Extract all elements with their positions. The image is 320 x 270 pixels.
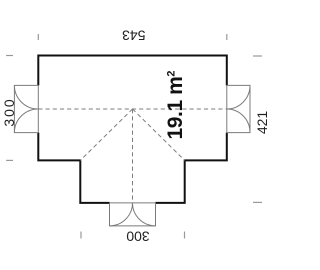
- svg-text:300: 300: [1, 97, 17, 126]
- roof ridge dashed horizontal: [38, 108, 227, 110]
- roof hip dashed diagonal right: [133, 109, 185, 160]
- door D3 bottom: swing arc right leaf: [133, 203, 156, 226]
- door D2 right: frame box: [227, 85, 250, 132]
- wall: top + upper side walls: [38, 56, 227, 86]
- door D2 right: swing arc upper leaf: [227, 85, 250, 109]
- dimension tick top-right: [226, 34, 228, 40]
- roof valley dashed vertical: [132, 109, 134, 203]
- door D1 left: threshold line: [37, 85, 39, 132]
- dimension tick bottom-left: [80, 232, 82, 239]
- door D1 left: frame box: [14, 85, 38, 132]
- dimension tick top-left: [37, 34, 39, 40]
- dimension tick bottom-right: [184, 232, 186, 239]
- dimension tick left-upper: [6, 55, 13, 57]
- door D1 left: swing arc lower leaf: [14, 109, 38, 133]
- svg-text:421: 421: [254, 111, 270, 135]
- door D3 bottom: threshold line: [110, 202, 156, 204]
- svg-text:19.1 m2: 19.1 m2: [164, 71, 187, 140]
- roof hip dashed diagonal left: [80, 109, 132, 160]
- door D1 left: swing arc upper leaf: [14, 85, 38, 109]
- dimension tick right-upper: [253, 55, 262, 57]
- wall: lower-right (right wall lower seg, wing bottom, extension right, extension bottom-right): [156, 133, 227, 203]
- door D2 right: threshold line: [226, 85, 228, 132]
- door D2 right: swing arc lower leaf: [227, 109, 250, 133]
- wall: lower-left (left wall lower seg, wing bottom, extension left, extension bottom-left): [38, 133, 109, 203]
- dimension tick right-lower: [253, 201, 262, 203]
- svg-text:300: 300: [126, 229, 150, 245]
- svg-text:543: 543: [122, 27, 146, 43]
- door D3 bottom: swing arc left leaf: [110, 203, 133, 226]
- dimension tick left-lower: [6, 159, 13, 161]
- door D3 bottom: frame box: [110, 203, 156, 226]
